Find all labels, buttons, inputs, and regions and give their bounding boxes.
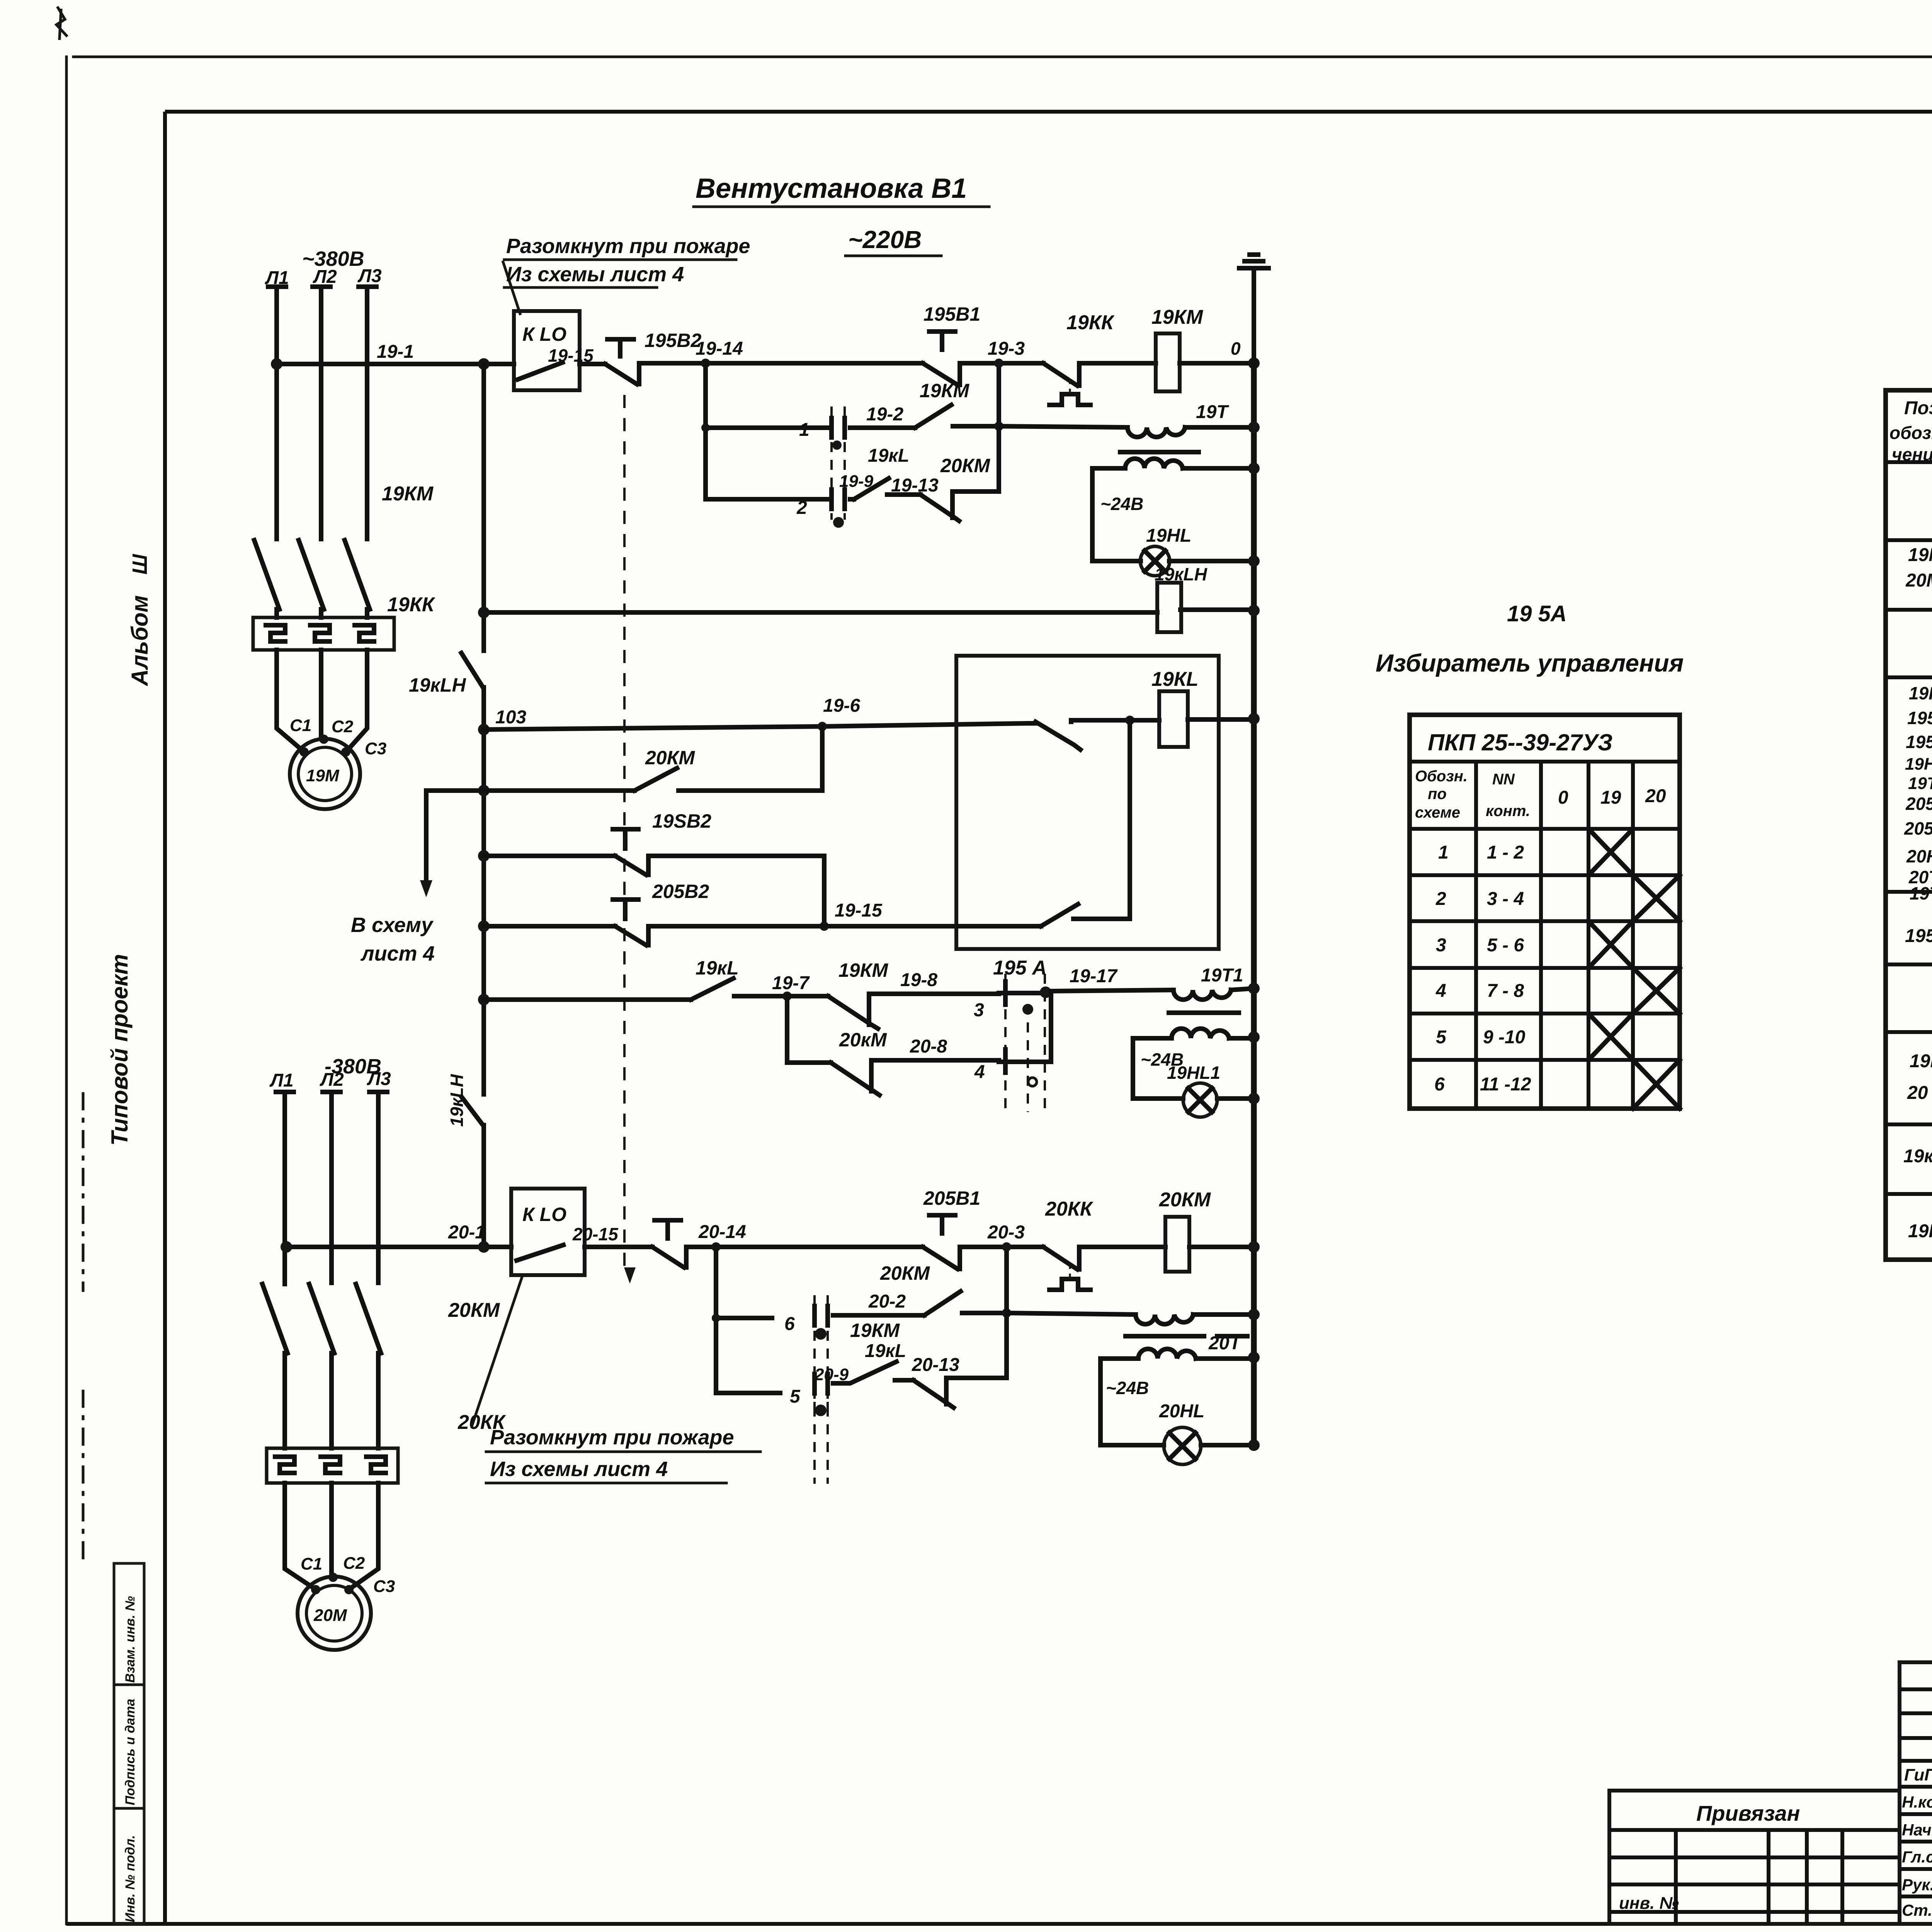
svg-text:19кLН: 19кLН: [1155, 564, 1207, 584]
node junction lamp1/rail: [1248, 1093, 1260, 1104]
svg-text:6: 6: [784, 1314, 795, 1334]
header cell Poz oboznachenie: [1889, 398, 1932, 464]
svg-text:20-3: 20-3: [987, 1222, 1025, 1243]
wire contacts 3-4 common vertical: [1049, 992, 1053, 1062]
svg-text:инв. №: инв. №: [1619, 1894, 1679, 1913]
contact 20KM auxiliary: [634, 768, 677, 791]
selector row 3: [1436, 935, 1524, 956]
wire into box (19-15): [958, 924, 1041, 929]
pushbutton 20SB2 (lower pair): [613, 900, 648, 945]
svg-text:19НL: 19НL: [1909, 683, 1932, 703]
relay contact lower blade: [1041, 904, 1078, 926]
press symbol 20KK: [1049, 1279, 1090, 1290]
wire bus 19-1: [275, 362, 514, 366]
contact 19KM aux (19-13): [920, 492, 959, 521]
svg-text:Рук. гр.: Рук. гр.: [1902, 1876, 1932, 1894]
svg-text:К LO: К LO: [522, 323, 566, 345]
svg-text:20КМ: 20КМ: [448, 1299, 500, 1321]
wire right rail: [1251, 363, 1257, 1445]
svg-text:схеме: схеме: [1415, 804, 1460, 821]
wire row 19-14: [639, 361, 923, 366]
svg-text:20: 20: [1645, 786, 1666, 806]
svg-text:Л3: Л3: [367, 1069, 391, 1089]
svg-text:19кLН: 19кLН: [409, 674, 466, 696]
contactor 19KM main contact pole 3: [345, 540, 370, 617]
title block privyazan table: [1609, 1791, 1900, 1924]
selector table 19SA: [1410, 715, 1680, 1109]
svg-text:С1: С1: [301, 1554, 322, 1573]
node junction coil/common: [1125, 716, 1134, 725]
coil 19KM: [1156, 333, 1180, 391]
svg-text:20-8: 20-8: [910, 1036, 947, 1057]
pushbutton 19SB2 (top stop): [605, 339, 639, 384]
node branch row6: [712, 1314, 720, 1322]
node junction 0: [1248, 357, 1260, 369]
pushbutton 19SB1 (start): [923, 332, 960, 385]
node junction bus/left rail: [478, 358, 490, 370]
svg-text:19Т1: 19Т1: [1201, 965, 1243, 986]
transformer 20T secondary winding: [1138, 1349, 1196, 1359]
svg-text:по: по: [1428, 786, 1447, 803]
wire phase L2 vertical: [319, 289, 323, 539]
wire contact3 row to junction: [999, 991, 1051, 995]
node rail row 19KL: [478, 994, 490, 1005]
fire relay contact KLO box (20): [511, 1189, 585, 1275]
svg-text:Вентустановка В1: Вентустановка В1: [696, 173, 967, 204]
contact 20KM aux (20-8): [831, 1060, 879, 1095]
svg-text:1 - 2: 1 - 2: [1487, 842, 1524, 863]
wire row 19T primary: [999, 426, 1254, 427]
transformer 19T1 core: [1169, 1010, 1239, 1015]
svg-text:Гл.спец.: Гл.спец.: [1902, 1848, 1932, 1866]
selector column header NN kont: [1486, 771, 1530, 820]
svg-text:205В1: 205В1: [923, 1187, 980, 1209]
terminal tick L2: [313, 284, 330, 289]
wire 19-2 to vertical: [953, 424, 999, 429]
svg-text:205В1: 205В1: [1905, 794, 1932, 814]
svg-text:Подпись и дата: Подпись и дата: [123, 1699, 138, 1805]
svg-text:19КL: 19КL: [1151, 668, 1199, 690]
svg-text:0: 0: [1558, 787, 1568, 808]
contactor 19KM main contact pole 1: [254, 540, 279, 617]
svg-text:7 - 8: 7 - 8: [1487, 981, 1524, 1001]
relay contact upper blade: [1036, 722, 1080, 750]
svg-text:195В2: 195В2: [645, 330, 702, 351]
svg-text:19-14: 19-14: [696, 338, 743, 359]
wire phase L1 vertical: [274, 289, 279, 539]
signature rows text: [1902, 1765, 1932, 1920]
svg-text:0: 0: [1231, 338, 1241, 359]
node junction bus/rail (20): [478, 1241, 490, 1253]
lamp 19HL1: [1183, 1083, 1217, 1117]
relay contact upper fixed: [1071, 720, 1130, 722]
svg-text:ГиП: ГиП: [1904, 1765, 1932, 1784]
svg-text:19кL: 19кL: [865, 1341, 906, 1361]
wire 19KK to coil: [1079, 361, 1156, 366]
pushbutton 20SB1 (start): [923, 1215, 960, 1269]
svg-text:NN: NN: [1492, 771, 1515, 788]
svg-text:20 км: 20 км: [1907, 1083, 1932, 1103]
wire row 20-8: [871, 1058, 999, 1063]
svg-text:19-6: 19-6: [823, 696, 860, 716]
wire phase L3 vertical: [365, 289, 369, 539]
node junction 19-7: [782, 992, 792, 1001]
svg-text:195В1: 195В1: [923, 303, 980, 325]
svg-text:20Т: 20Т: [1208, 1333, 1242, 1354]
X mark row6 col20: [1633, 1060, 1680, 1109]
fire relay contact KLO box (19): [514, 311, 580, 390]
press symbol stem dashed (20KK): [1069, 1262, 1071, 1279]
wire coil 20KM to rail: [1189, 1245, 1254, 1249]
node junction 19KLH/rail: [1248, 605, 1260, 616]
svg-text:19НL1: 19НL1: [1167, 1063, 1220, 1083]
svg-text:19-3: 19-3: [988, 338, 1025, 359]
svg-text:Альбом: Альбом: [127, 595, 153, 687]
svg-text:С1: С1: [290, 716, 311, 735]
svg-text:20КМ: 20КМ: [880, 1262, 930, 1284]
svg-text:С3: С3: [373, 1577, 395, 1596]
wire vertical 19-3 branch: [997, 363, 1001, 492]
wire row 1 to 19KM blade: [850, 425, 915, 430]
transformer 19T primary winding: [1128, 427, 1185, 437]
transformer 19T1 primary winding: [1173, 990, 1231, 1000]
transformer 20T core: [1126, 1334, 1247, 1338]
svg-text:19Т: 19Т: [1910, 883, 1932, 903]
svg-text:20-1: 20-1: [448, 1222, 485, 1243]
svg-text:195А: 195А: [1905, 926, 1932, 946]
motor 19M: [290, 739, 360, 809]
svg-text:С2: С2: [332, 717, 354, 736]
row 19km 20km: pos: [1907, 1051, 1932, 1103]
svg-text:2: 2: [1435, 889, 1446, 909]
X mark row2 col20: [1633, 875, 1680, 921]
big row: pos list: [1904, 683, 1932, 903]
svg-text:Л2: Л2: [320, 1070, 344, 1090]
wire contact4 row: [999, 1060, 1051, 1064]
wire row 19KL contact: [484, 996, 787, 1000]
margin stamp text: Album III: [127, 554, 153, 687]
component list table frame: [1886, 390, 1932, 1260]
node junction secondary20/rail: [1248, 1352, 1260, 1363]
svg-text:Л2: Л2: [313, 267, 337, 287]
wire L3b to motor: [350, 1483, 378, 1589]
svg-text:19 5А: 19 5А: [1507, 601, 1567, 626]
svg-text:Л1: Л1: [269, 1070, 294, 1091]
top border line 2 (frame top): [165, 110, 1932, 114]
svg-text:19-13: 19-13: [891, 475, 939, 496]
wire phase L3b: [376, 1094, 381, 1283]
node junction lamp/rail: [1248, 555, 1260, 567]
wire lamp branch 19HL1: [1133, 1038, 1254, 1099]
transformer 20T primary winding: [1136, 1315, 1193, 1324]
svg-text:Нач.отд.: Нач.отд.: [1902, 1821, 1932, 1839]
node C3b: [344, 1585, 354, 1594]
arrowhead to sheet 4: [420, 880, 432, 897]
X mark row4 col20: [1633, 968, 1680, 1014]
svg-text:19-9: 19-9: [839, 472, 874, 491]
node junction 20KM/rail: [1248, 1241, 1260, 1253]
wire row 20SB2 / 19-15: [484, 924, 958, 929]
node junction 19T/rail: [1248, 422, 1260, 433]
svg-text:205В2: 205В2: [652, 881, 709, 902]
node C1b: [311, 1585, 320, 1594]
svg-text:205В2: 205В2: [1904, 818, 1932, 838]
svg-text:19км: 19км: [1910, 1051, 1932, 1071]
left outer margin line: [65, 57, 68, 1924]
svg-text:20-13: 20-13: [912, 1355, 959, 1375]
drawing title Ventustanovka V1: [694, 173, 989, 207]
svg-text:20М: 20М: [1905, 570, 1932, 591]
wire row 5 (20-9) left part: [716, 1391, 780, 1395]
node junction 20-14: [711, 1242, 721, 1252]
svg-text:Ст.инж.: Ст.инж.: [1902, 1901, 1932, 1919]
wire row 2 (19-13) left part: [706, 497, 827, 502]
svg-text:20НL: 20НL: [1906, 846, 1932, 866]
selector row 5: [1436, 1027, 1526, 1048]
frame left edge: [163, 112, 167, 1924]
wire 19T1 to rail: [1231, 988, 1254, 990]
svg-text:19-7: 19-7: [772, 973, 810, 993]
scan scribble top-left corner: [56, 8, 66, 39]
wire branch vertical 19-6 to 20KM row: [820, 726, 825, 791]
svg-text:конт.: конт.: [1486, 803, 1530, 820]
svg-text:19-1: 19-1: [377, 342, 414, 362]
svg-text:19КL: 19КL: [1908, 1221, 1932, 1242]
svg-text:С3: С3: [365, 739, 386, 758]
svg-text:~24В: ~24В: [1106, 1378, 1149, 1398]
node junction L1b/bus: [281, 1241, 292, 1253]
svg-text:19Т: 19Т: [1196, 402, 1229, 422]
lamp 20HL: [1164, 1427, 1201, 1464]
svg-text:19SВ2: 19SВ2: [652, 810, 711, 832]
node rail row 20SB2: [478, 920, 490, 932]
pushbutton 19SB2 (lower pair): [613, 829, 648, 875]
contact 19KLH on rail (lower): [461, 1097, 483, 1125]
svg-text:3: 3: [974, 1000, 984, 1020]
wire L1 to motor: [277, 650, 303, 751]
wire 20T secondary: [1100, 1356, 1254, 1361]
wire left control rail upper: [481, 364, 486, 651]
svg-text:Н.контр.: Н.контр.: [1902, 1793, 1932, 1811]
svg-text:20НL: 20НL: [1159, 1401, 1204, 1422]
selector row 2: [1435, 889, 1524, 909]
svg-text:20-15: 20-15: [572, 1224, 619, 1244]
wire 19T1 secondary: [1133, 1036, 1254, 1041]
contact 19KLH on rail (upper): [461, 653, 483, 687]
node rail row 20KM: [478, 785, 490, 796]
svg-text:Из схемы лист 4: Из схемы лист 4: [490, 1458, 668, 1481]
wire KLO2 to button: [585, 1245, 652, 1249]
svg-text:Ш: Ш: [128, 554, 151, 575]
svg-text:Типовой проект: Типовой проект: [107, 954, 133, 1146]
svg-text:19КК: 19КК: [387, 594, 435, 616]
svg-text:С2: С2: [343, 1554, 365, 1573]
selector row 6: [1434, 1074, 1531, 1095]
node junction 19-14: [701, 359, 710, 368]
contact 20KK thermal NC: [1043, 1247, 1079, 1269]
wire 20SB1 to 20KK: [960, 1245, 1043, 1249]
svg-text:19кLН: 19кLН: [1903, 1146, 1932, 1167]
terminal tick L3b: [369, 1090, 387, 1094]
svg-text:Л3: Л3: [357, 266, 382, 286]
wire left control rail lower: [481, 1125, 486, 1247]
wire lamp branch 19HL: [1092, 468, 1254, 561]
selector 19SA contact 5: [815, 1371, 828, 1484]
terminal tick L2b: [323, 1090, 340, 1094]
svg-text:4: 4: [1435, 981, 1446, 1001]
wire row 19-8: [869, 992, 999, 996]
node junction 19-17: [1040, 986, 1051, 998]
svg-text:Взам. инв. №: Взам. инв. №: [123, 1596, 138, 1683]
wire into box (19-6): [1028, 721, 1036, 726]
callout note line (top KLO): [503, 262, 520, 314]
node C3: [341, 747, 350, 757]
wire row 20KM contact: [484, 788, 822, 793]
svg-text:19КМ: 19КМ: [382, 483, 434, 505]
node junction 19-2/vertical: [994, 422, 1003, 431]
terminal tick L1: [268, 284, 286, 289]
X mark row3 col19: [1588, 921, 1633, 968]
node junction 20-2/vertical: [1002, 1308, 1011, 1318]
node junction L1/bus: [271, 358, 282, 370]
subtitle ~220V: [845, 226, 941, 256]
selector 19SA contact 6: [815, 1295, 828, 1410]
svg-text:5: 5: [790, 1386, 801, 1407]
wire 19T secondary: [1092, 466, 1254, 471]
thermal overload 19KK block: [253, 617, 394, 650]
pushbutton (linked, bottom pair): [652, 1220, 686, 1267]
wire 19-13 to vertical: [952, 489, 999, 494]
svg-text:Разомкнут при пожаре: Разомкнут при пожаре: [506, 235, 750, 258]
relay 19KL enclosure box: [956, 656, 1219, 949]
wire 19SB1 to 19KK: [960, 361, 1043, 366]
motor 20M: [298, 1577, 371, 1650]
svg-text:20КМ: 20КМ: [940, 455, 990, 476]
svg-text:Избиратель управления: Избиратель управления: [1376, 649, 1684, 677]
wire relay common vertical: [1128, 720, 1132, 919]
wire L2 to motor: [319, 650, 323, 738]
wire coil to rail (net 0): [1180, 361, 1254, 366]
wire arrow branch to sheet 4: [426, 791, 484, 885]
wire branch 20-14 down to rows 6-5: [714, 1247, 718, 1393]
svg-text:20М: 20М: [313, 1606, 347, 1625]
node junction 19-3: [994, 359, 1003, 368]
svg-text:195В1: 195В1: [1907, 708, 1932, 728]
wire L1b to motor: [285, 1483, 315, 1589]
svg-text:195В2: 195В2: [1906, 732, 1932, 752]
svg-text:20КМ: 20КМ: [645, 747, 695, 769]
svg-text:К LO: К LO: [522, 1204, 566, 1225]
svg-text:20КК: 20КК: [1045, 1198, 1094, 1220]
wire row 20-14: [686, 1245, 923, 1249]
wire common to coil: [1130, 718, 1159, 723]
wire 20-2 to vertical: [962, 1311, 1007, 1315]
lamp 19HL: [1140, 546, 1170, 576]
contact 19KM aux (20-13): [913, 1378, 954, 1408]
wire 20KK to coil: [1079, 1245, 1165, 1249]
X mark row5 col19: [1588, 1014, 1633, 1060]
wire left control rail middle: [481, 687, 486, 1094]
contact 19KL changeover blade: [691, 978, 733, 1000]
coil 19KL: [1159, 691, 1188, 747]
callout note line (bottom KLO): [472, 1276, 522, 1425]
note text: opened on fire (top): [504, 235, 750, 287]
svg-text:20-2: 20-2: [868, 1291, 906, 1312]
svg-text:1: 1: [1438, 842, 1449, 863]
node junction 19-15: [820, 922, 829, 931]
svg-text:19КМ: 19КМ: [850, 1320, 900, 1341]
node rail row 19SB2: [478, 850, 490, 862]
svg-text:20кМ: 20кМ: [839, 1029, 887, 1051]
wire coil to rail: [1188, 717, 1254, 722]
contactor 20KM main contact pole 1: [262, 1283, 287, 1448]
contact 19KL aux (19-9): [854, 478, 920, 499]
transformer 19T core: [1120, 450, 1199, 454]
svg-text:19КК: 19КК: [1066, 311, 1115, 334]
svg-text:Обозн.: Обозн.: [1415, 768, 1468, 785]
svg-text:20КМ: 20КМ: [1159, 1189, 1211, 1211]
svg-text:Разомкнут при пожаре: Разомкнут при пожаре: [490, 1426, 734, 1449]
node C1: [299, 747, 309, 757]
node branch row1: [701, 423, 710, 432]
wire row 19SB2: [484, 854, 824, 858]
wire 20-13 to vertical: [946, 1376, 1007, 1380]
node junction 19KL/rail: [1248, 713, 1260, 724]
svg-text:9 -10: 9 -10: [1483, 1027, 1526, 1048]
svg-text:19-8: 19-8: [900, 970, 937, 990]
selector 19SA contact 1: [832, 406, 845, 528]
wire KLO to button 19SB2: [580, 362, 605, 366]
svg-text:19НL: 19НL: [1146, 526, 1191, 546]
node junction secondary/rail: [1248, 463, 1260, 474]
press symbol 19KK: [1049, 394, 1090, 405]
svg-text:19-17: 19-17: [1070, 966, 1118, 986]
svg-text:В схему: В схему: [351, 913, 434, 937]
mechanical linkage dashed: [623, 395, 626, 1271]
wire row 1 (19-2) left part: [706, 425, 827, 430]
contactor 20KM main contact pole 2: [309, 1284, 334, 1448]
svg-text:Инв. № подл.: Инв. № подл.: [123, 1835, 138, 1922]
note text: opened on fire (bottom): [486, 1426, 760, 1483]
selector 19SA contacts 3-4 block: [1005, 974, 1045, 1112]
frame bottom edge / page bottom border: [66, 1922, 1932, 1926]
svg-text:103: 103: [495, 707, 526, 728]
svg-text:19кL: 19кL: [696, 957, 739, 979]
node junction 19T1/rail: [1248, 983, 1260, 994]
wire L2b to motor: [329, 1483, 334, 1576]
svg-text:чение: чение: [1892, 444, 1932, 464]
terminal tick L1b: [276, 1090, 294, 1094]
wire bus 20-1: [285, 1245, 511, 1249]
node rail row 103: [478, 724, 490, 735]
svg-text:6: 6: [1434, 1074, 1445, 1095]
wire row 6 to 20KM blade: [833, 1313, 924, 1318]
wire vertical 20-3 branch: [1004, 1247, 1009, 1378]
relay contact lower fixed: [1073, 917, 1130, 921]
row motor: pos 19M 20M: [1905, 545, 1932, 591]
svg-text:19-2: 19-2: [866, 404, 903, 425]
node C2: [319, 735, 328, 744]
selector column header oboznachenie: [1415, 768, 1468, 821]
svg-text:ПКП 25--39-27УЗ: ПКП 25--39-27УЗ: [1428, 730, 1612, 755]
transformer 19T secondary winding: [1125, 459, 1183, 468]
wire row 6 (20-2) left part: [716, 1316, 772, 1320]
svg-text:19Т1: 19Т1: [1908, 774, 1932, 793]
svg-text:19-15: 19-15: [835, 900, 883, 921]
svg-text:лист 4: лист 4: [360, 942, 435, 965]
svg-text:19НL1: 19НL1: [1905, 755, 1932, 774]
thermal overload 20KK block: [267, 1448, 398, 1483]
